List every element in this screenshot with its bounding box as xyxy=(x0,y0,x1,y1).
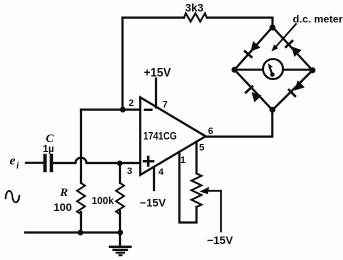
svg-text:5: 5 xyxy=(199,143,205,154)
svg-text:3k3: 3k3 xyxy=(185,3,203,15)
svg-text:+15V: +15V xyxy=(144,68,172,80)
svg-text:2: 2 xyxy=(129,98,134,109)
svg-text:7: 7 xyxy=(162,100,167,111)
svg-text:−15V: −15V xyxy=(140,198,167,210)
svg-text:d.c. meter: d.c. meter xyxy=(293,14,343,25)
svg-text:e: e xyxy=(10,153,16,168)
svg-text:i: i xyxy=(16,161,19,171)
svg-text:100k: 100k xyxy=(92,196,115,207)
svg-text:100: 100 xyxy=(54,202,72,214)
svg-text:R: R xyxy=(59,185,68,199)
svg-text:6: 6 xyxy=(208,126,213,137)
svg-text:1741CG: 1741CG xyxy=(143,130,177,142)
svg-text:1: 1 xyxy=(180,155,186,166)
svg-text:1µ: 1µ xyxy=(43,144,55,155)
svg-text:−15V: −15V xyxy=(207,235,234,247)
svg-text:4: 4 xyxy=(158,167,164,178)
svg-text:3: 3 xyxy=(127,166,132,177)
